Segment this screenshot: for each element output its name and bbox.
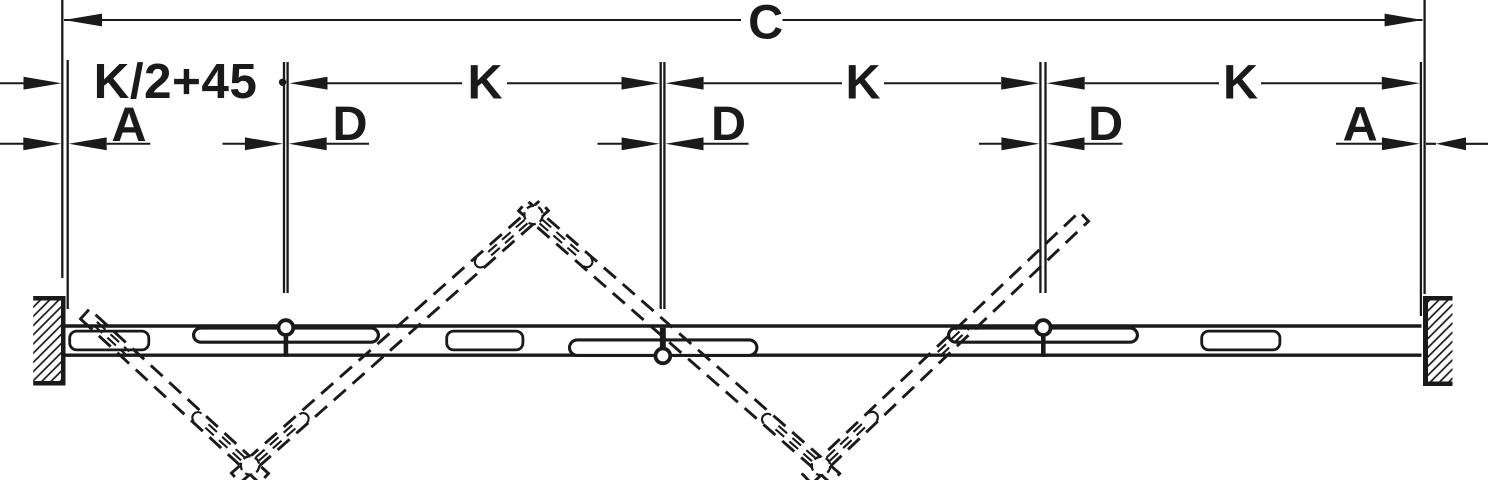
svg-text:K: K bbox=[1223, 55, 1258, 109]
svg-text:A: A bbox=[111, 98, 146, 152]
svg-text:C: C bbox=[748, 0, 783, 50]
svg-text:A: A bbox=[1343, 98, 1378, 152]
svg-text:D: D bbox=[711, 97, 746, 151]
svg-text:K: K bbox=[845, 55, 880, 109]
svg-text:D: D bbox=[1088, 97, 1123, 151]
svg-text:D: D bbox=[332, 97, 367, 151]
svg-text:K: K bbox=[467, 55, 502, 109]
